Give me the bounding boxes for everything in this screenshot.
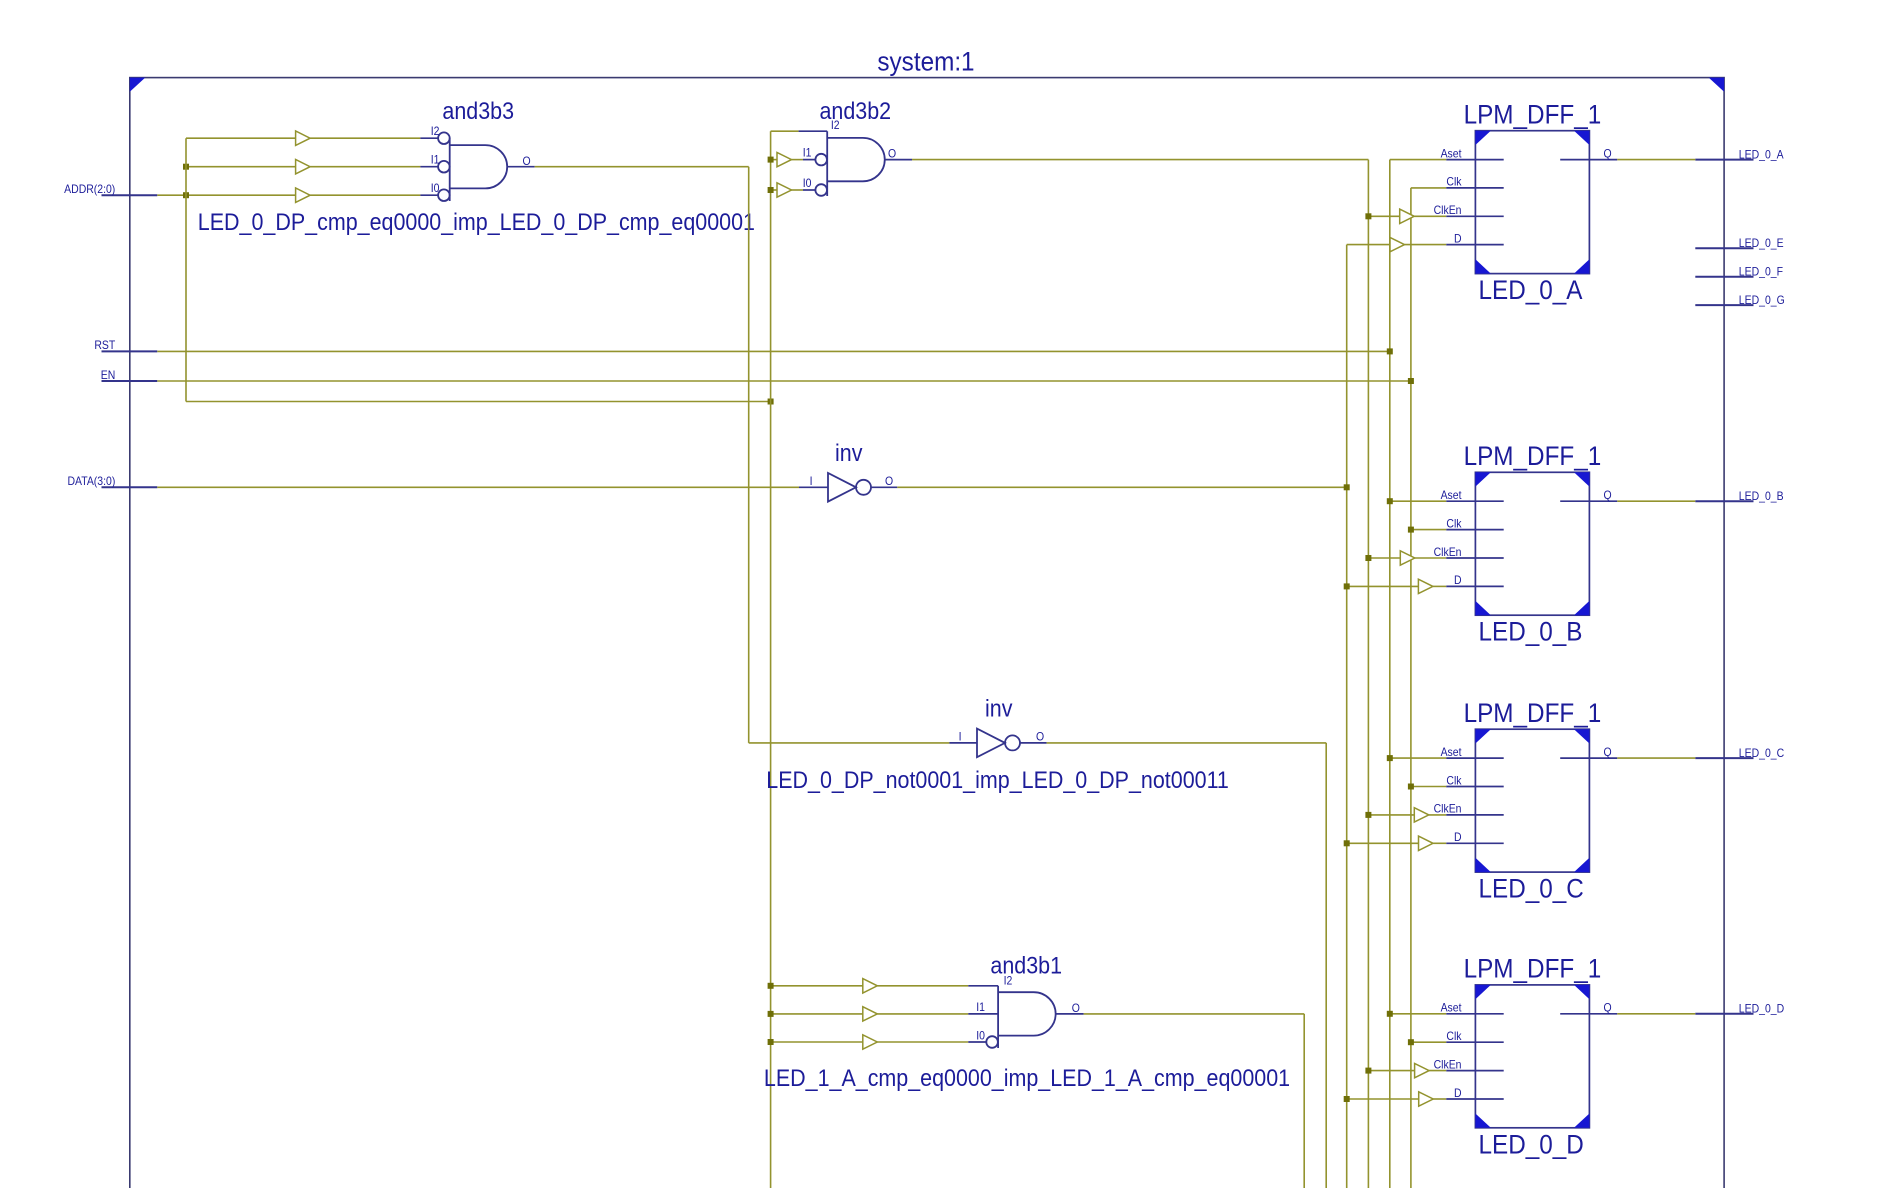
svg-text:LPM_DFF_1: LPM_DFF_1 (1464, 442, 1602, 471)
svg-text:Aset: Aset (1441, 490, 1462, 503)
svg-text:I2: I2 (431, 126, 440, 139)
svg-text:ClkEn: ClkEn (1434, 803, 1462, 816)
svg-text:LED_0_G: LED_0_G (1739, 294, 1785, 307)
svg-text:LED_0_B: LED_0_B (1479, 618, 1583, 647)
svg-text:Q: Q (1604, 746, 1613, 759)
svg-text:DATA(3:0): DATA(3:0) (67, 476, 115, 489)
svg-text:I1: I1 (976, 1002, 985, 1015)
svg-text:LPM_DFF_1: LPM_DFF_1 (1464, 699, 1602, 728)
svg-text:RST: RST (94, 340, 115, 353)
svg-text:inv: inv (835, 440, 863, 466)
svg-text:LED_0_C: LED_0_C (1479, 875, 1584, 904)
svg-text:I1: I1 (431, 154, 440, 167)
svg-text:ClkEn: ClkEn (1434, 205, 1462, 218)
svg-text:Clk: Clk (1446, 1031, 1462, 1044)
svg-text:O: O (888, 148, 897, 161)
svg-text:ADDR(2:0): ADDR(2:0) (64, 184, 115, 197)
svg-text:Clk: Clk (1446, 518, 1462, 531)
svg-text:O: O (523, 155, 532, 168)
svg-text:LED_0_D: LED_0_D (1739, 1003, 1784, 1016)
svg-text:D: D (1454, 832, 1462, 845)
svg-text:LED_0_D: LED_0_D (1479, 1130, 1584, 1159)
svg-text:D: D (1454, 575, 1462, 588)
svg-text:I1: I1 (803, 147, 812, 160)
svg-text:ClkEn: ClkEn (1434, 546, 1462, 559)
svg-text:LPM_DFF_1: LPM_DFF_1 (1464, 100, 1602, 129)
svg-text:LED_0_A: LED_0_A (1739, 149, 1784, 162)
svg-text:and3b2: and3b2 (820, 98, 892, 124)
svg-text:LED_0_B: LED_0_B (1739, 491, 1784, 504)
svg-text:Q: Q (1604, 1002, 1613, 1015)
svg-text:and3b1: and3b1 (990, 952, 1062, 978)
svg-text:ClkEn: ClkEn (1434, 1059, 1462, 1072)
svg-text:system:1: system:1 (877, 48, 974, 77)
svg-text:EN: EN (101, 369, 116, 382)
svg-text:inv: inv (985, 695, 1013, 721)
svg-text:Q: Q (1604, 148, 1613, 161)
svg-text:I0: I0 (976, 1030, 985, 1043)
svg-text:Aset: Aset (1441, 148, 1462, 161)
svg-text:D: D (1454, 233, 1462, 246)
svg-text:O: O (885, 475, 894, 488)
svg-text:LED_0_A: LED_0_A (1479, 276, 1583, 305)
svg-text:LED_0_F: LED_0_F (1739, 266, 1783, 279)
svg-text:O: O (1036, 731, 1045, 744)
svg-text:Clk: Clk (1446, 775, 1462, 788)
svg-text:Aset: Aset (1441, 746, 1462, 759)
svg-text:I0: I0 (803, 178, 812, 191)
svg-text:I: I (959, 731, 962, 744)
svg-text:I: I (810, 476, 813, 489)
svg-text:LED_0_E: LED_0_E (1739, 238, 1784, 251)
svg-text:D: D (1454, 1087, 1462, 1100)
svg-text:LED_0_DP_not0001_imp_LED_0_DP_: LED_0_DP_not0001_imp_LED_0_DP_not00011 (766, 767, 1229, 793)
svg-text:LED_1_A_cmp_eq0000_imp_LED_1_A: LED_1_A_cmp_eq0000_imp_LED_1_A_cmp_eq000… (764, 1065, 1290, 1091)
svg-text:I0: I0 (431, 183, 440, 196)
svg-text:O: O (1072, 1003, 1081, 1016)
svg-text:Clk: Clk (1446, 176, 1462, 189)
svg-text:Q: Q (1604, 490, 1613, 503)
svg-text:LPM_DFF_1: LPM_DFF_1 (1464, 955, 1602, 984)
svg-text:LED_0_DP_cmp_eq0000_imp_LED_0_: LED_0_DP_cmp_eq0000_imp_LED_0_DP_cmp_eq0… (198, 209, 755, 235)
svg-text:LED_0_C: LED_0_C (1739, 747, 1784, 760)
svg-text:and3b3: and3b3 (442, 98, 514, 124)
svg-text:Aset: Aset (1441, 1002, 1462, 1015)
